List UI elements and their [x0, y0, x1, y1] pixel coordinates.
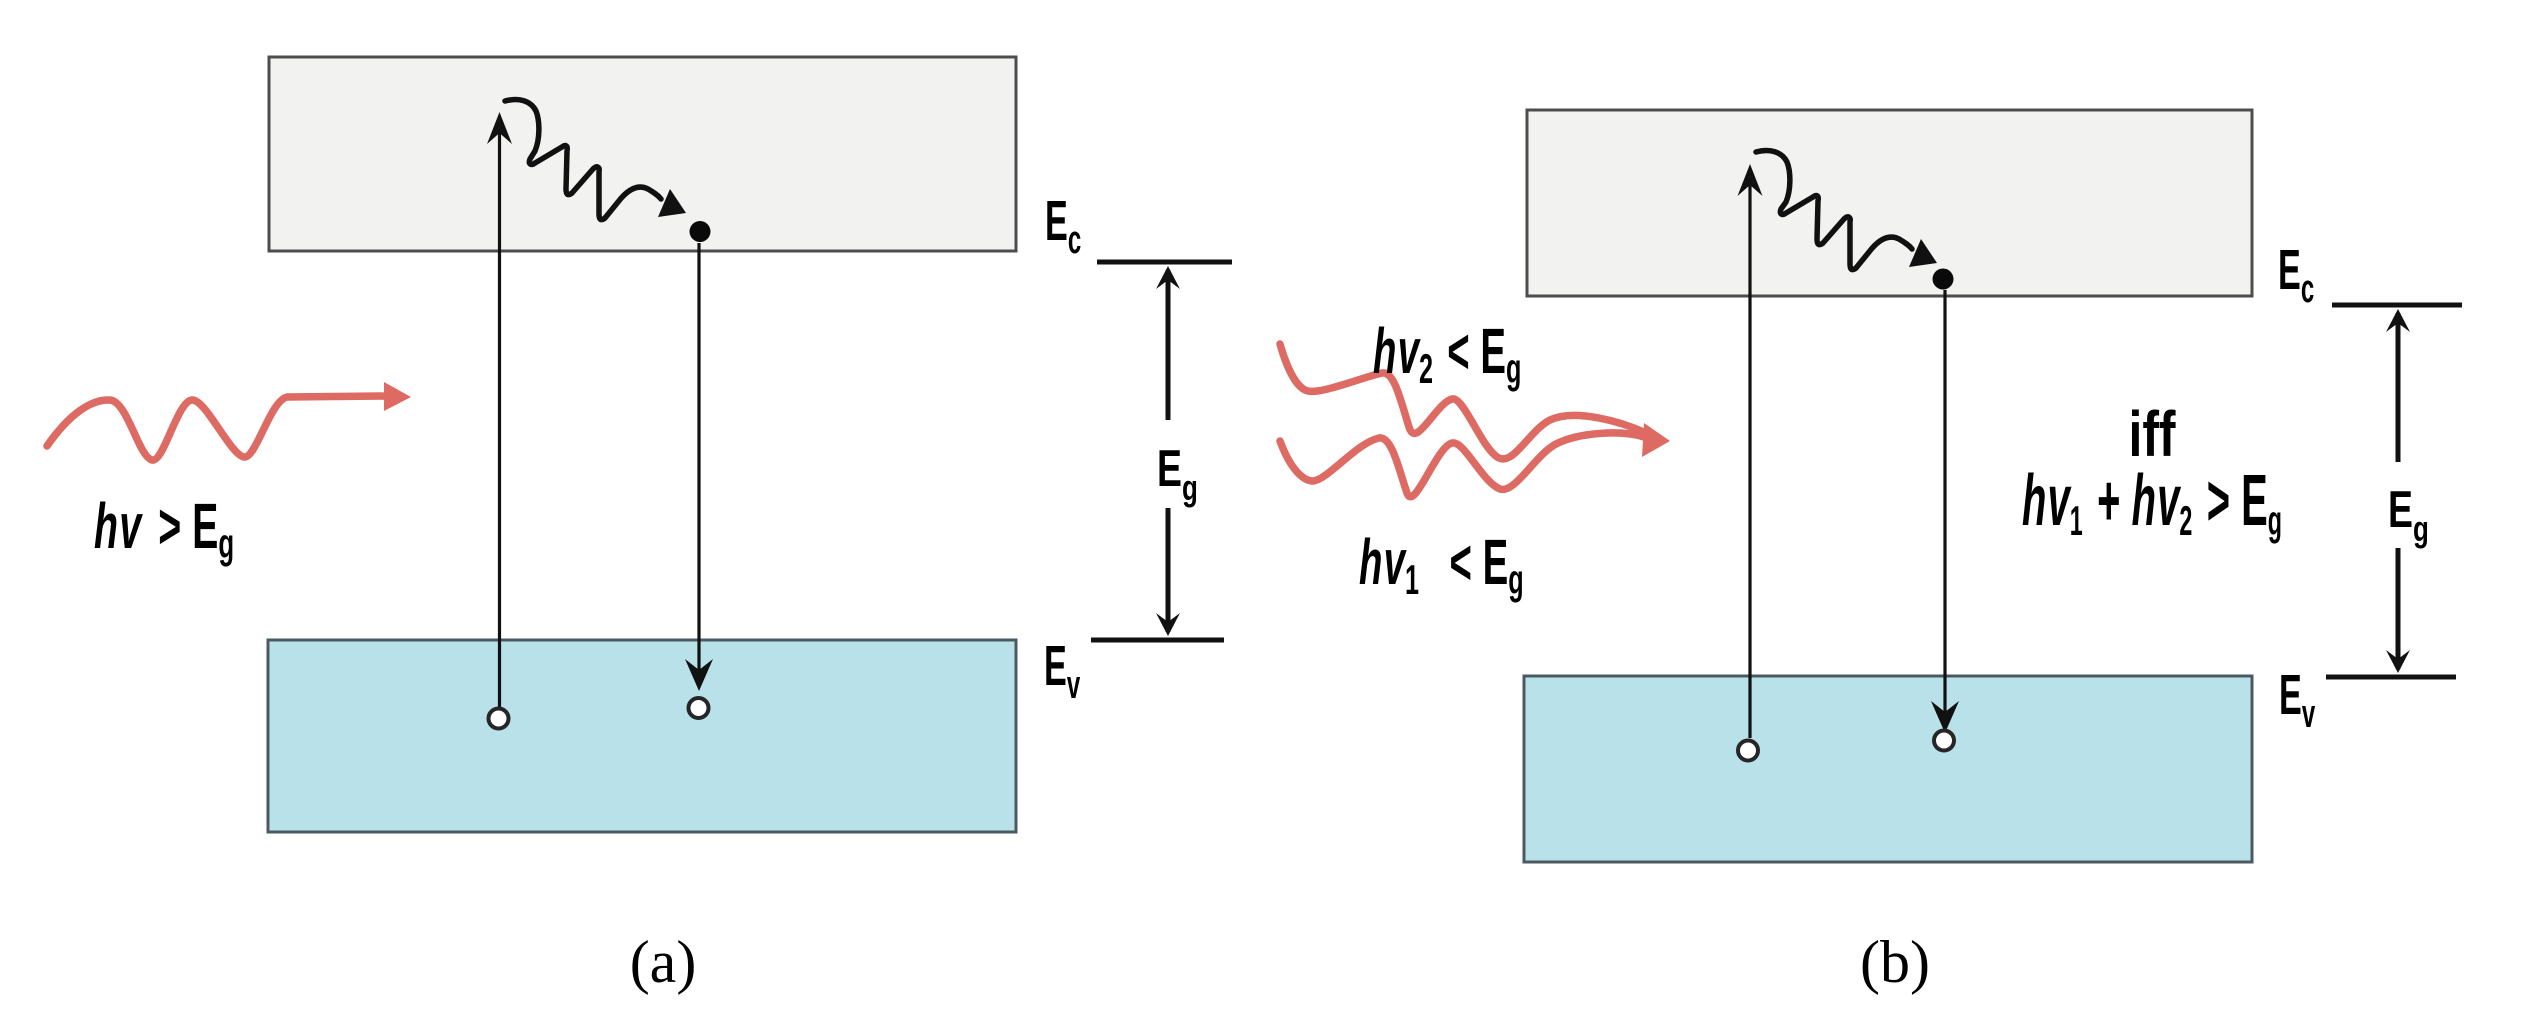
- photon wave (a): [47, 396, 388, 460]
- svg-text:(a): (a): [630, 929, 697, 995]
- label Ev (b): [2279, 662, 2316, 736]
- electron dot (a): [690, 221, 711, 242]
- svg-text:hv1 + hv2 > Eg: hv1 + hv2 > Eg: [2022, 461, 2282, 545]
- photon wave 2 (b, upper): [1280, 344, 1646, 459]
- recombination arrow down (b): [1931, 290, 1959, 733]
- label hv1 < Eg (b): [1359, 527, 1524, 604]
- relaxation squiggle (b): [1756, 150, 1912, 269]
- excitation arrow up (b): [1738, 164, 1763, 738]
- conduction band (b): [1527, 110, 2252, 296]
- hole circle 1 (a): [489, 709, 509, 729]
- relaxation squiggle (a): [505, 99, 661, 219]
- recombination arrow down (a): [685, 243, 713, 691]
- label Eg (b): [2388, 480, 2429, 549]
- svg-text:hv1 < Eg: hv1 < Eg: [1359, 527, 1524, 604]
- relaxation arrowhead (b): [1909, 239, 1937, 267]
- valence band (b): [1524, 676, 2252, 862]
- Eg gap double arrow (a): [1091, 262, 1232, 640]
- excitation arrow up (a): [487, 112, 512, 707]
- electron dot (b): [1933, 269, 1954, 290]
- label Eg (a): [1157, 439, 1198, 508]
- Eg gap double arrow (b): [2326, 305, 2462, 677]
- label Ec (b): [2278, 237, 2314, 311]
- label Ev (a): [1044, 633, 1081, 707]
- photon wave 1 (b, lower): [1280, 433, 1644, 497]
- label hv2 < Eg (b): [1373, 316, 1521, 393]
- hole circle 2 (b): [1934, 731, 1954, 751]
- relaxation arrowhead (a): [658, 189, 686, 217]
- label Ec (a): [1045, 188, 1081, 262]
- svg-text:hv2 < Eg: hv2 < Eg: [1373, 316, 1521, 393]
- conduction band (a): [269, 57, 1016, 251]
- svg-text:(b): (b): [1860, 929, 1930, 995]
- label hv1 + hv2 > Eg (b): [2022, 461, 2282, 545]
- label iff (b): [2128, 399, 2176, 470]
- photon arrowhead (b): [1642, 423, 1670, 457]
- hole circle 1 (b): [1738, 741, 1758, 761]
- photon arrowhead (a): [384, 382, 411, 411]
- svg-text:hv > Eg: hv > Eg: [94, 491, 234, 567]
- label hv > Eg (a): [94, 491, 234, 567]
- hole circle 2 (a): [689, 698, 709, 718]
- valence band (a): [268, 640, 1016, 832]
